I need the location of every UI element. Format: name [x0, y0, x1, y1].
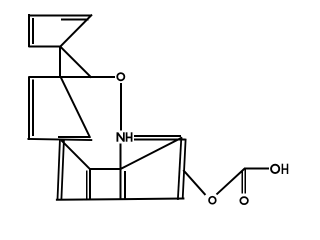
bond horizontal to O ether — [28, 76, 115, 78]
bond double inner left ring1 — [32, 18, 34, 44]
atom label O carbonyl — [240, 197, 248, 204]
atom label OH — [271, 164, 287, 174]
bond left edge ring2 — [28, 77, 30, 140]
bond NH vertical down to cage bottom — [120, 143, 122, 199]
bond NH double lower — [134, 139, 186, 141]
bond square left partner vertical — [86, 171, 88, 199]
bond ester O to carbonate C — [217, 169, 244, 194]
bond C=O main line — [244, 169, 246, 193]
bond cage bottom edge (tilted) — [57, 199, 183, 200]
bond bottom edge ring1 — [28, 46, 60, 48]
bond O ether to NH vertical — [120, 83, 122, 130]
bond square top edge — [90, 168, 121, 170]
bond C to OH horizontal — [244, 168, 269, 170]
bond NH double upper — [134, 135, 181, 137]
atom label O ether — [117, 73, 124, 80]
bond cage to ester O — [184, 171, 205, 194]
bond cage right outer (tilted) — [178, 138, 181, 199]
bond double partner ring2 bottom — [58, 136, 90, 138]
axis-aligned bonds (crisp) — [28, 14, 268, 199]
atom label NH — [117, 132, 131, 141]
atom label O ester — [209, 197, 216, 204]
bond diagonal linker to (91,77) — [60, 47, 91, 77]
bond double inner top ring1 — [61, 19, 89, 21]
bond cage right inner (tilted) — [183, 140, 186, 199]
bond cage left outer (tilted) — [58, 141, 60, 200]
bond left edge ring1 — [28, 14, 30, 47]
bond cage left inner (tilted) — [61, 141, 64, 200]
bond cage diagonal to square corner — [62, 141, 90, 169]
bond vertical linker — [59, 47, 61, 78]
bond square right partner vertical — [124, 171, 126, 199]
bond double inner left ring2 — [32, 80, 34, 137]
bond diagonal ring1 — [61, 15, 92, 46]
bond top edge ring1 — [28, 14, 91, 16]
bond C=O inner line — [241, 170, 243, 193]
bond bottom edge ring2 (tilted) — [28, 139, 91, 140]
bond square left main vertical — [89, 169, 91, 199]
slanted bonds (antialiased) — [28, 15, 243, 200]
bond long diagonal (61,77)-(90,136) — [61, 77, 90, 137]
bond cage diagonal right (square to top corner) — [121, 138, 181, 169]
